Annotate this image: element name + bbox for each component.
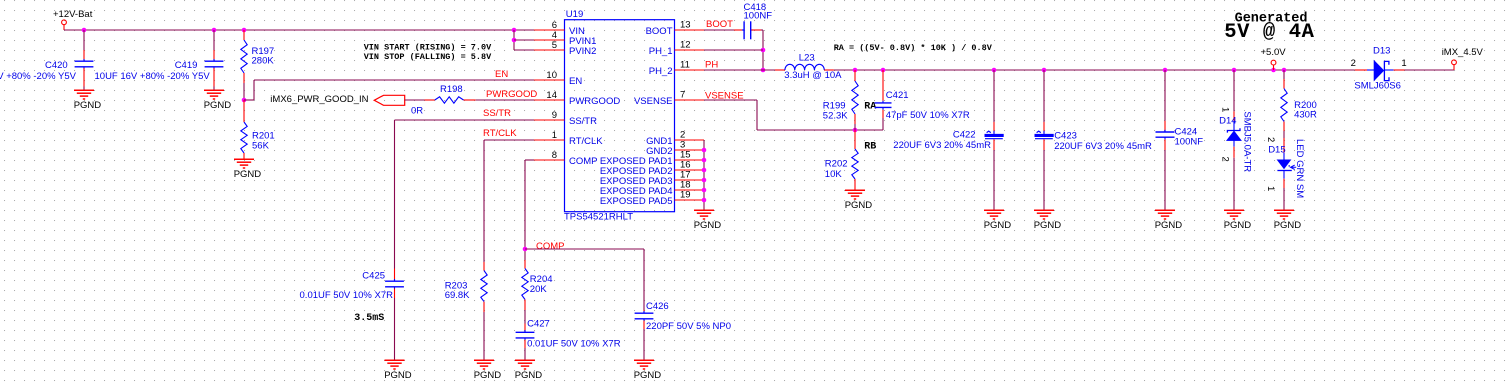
svg-text:PGND: PGND — [694, 220, 722, 231]
ground PGND D14 — [1224, 209, 1244, 211]
junction C424 — [1163, 68, 1168, 73]
svg-text:1: 1 — [552, 130, 557, 141]
junction D14 — [1232, 68, 1237, 73]
svg-text:PGND: PGND — [515, 370, 543, 381]
svg-text:69.8K: 69.8K — [445, 290, 470, 301]
svg-text:VSENSE: VSENSE — [634, 96, 673, 107]
svg-text:280K: 280K — [252, 56, 275, 67]
inductor L23 — [785, 64, 824, 70]
pin 19 stub — [675, 199, 705, 201]
resistor R199 — [854, 70, 856, 81]
op-amp U1 : IC U19 TPS54521RHLT body — [565, 20, 675, 212]
junction R200 — [1282, 68, 1287, 73]
svg-text:56K: 56K — [252, 141, 270, 152]
svg-text:iMX6_PWR_GOOD_IN: iMX6_PWR_GOOD_IN — [270, 94, 368, 105]
svg-text:RB: RB — [864, 142, 876, 153]
junction C421 — [881, 68, 886, 73]
wire COMP to C426 — [525, 248, 644, 250]
svg-text:10K: 10K — [825, 169, 843, 180]
junction COMP — [523, 247, 528, 252]
svg-text:PGND: PGND — [1155, 220, 1183, 231]
svg-text:9: 9 — [552, 110, 557, 121]
svg-text:C421: C421 — [886, 90, 909, 101]
junction pad bus y=160 — [702, 158, 707, 163]
junction pad bus y=170 — [702, 168, 707, 173]
svg-text:10UF 16V +80% -20% Y5V: 10UF 16V +80% -20% Y5V — [0, 71, 77, 82]
junction C419 tap — [212, 28, 217, 33]
svg-text:PWRGOOD: PWRGOOD — [569, 96, 620, 107]
resistor R203 — [481, 271, 487, 302]
svg-text:TPS54521RHLT: TPS54521RHLT — [564, 212, 633, 223]
wire PH_2 — [704, 69, 775, 71]
svg-text:PH_1: PH_1 — [649, 46, 673, 57]
svg-text:PGND: PGND — [204, 100, 232, 111]
svg-text:SS/TR: SS/TR — [483, 108, 511, 119]
wire to PVIN2 — [514, 49, 534, 51]
pin 4 stub — [534, 39, 565, 41]
svg-text:13: 13 — [680, 20, 691, 31]
svg-text:PH_2: PH_2 — [649, 66, 673, 77]
ground PGND U19 pads — [694, 209, 714, 211]
svg-text:47pF 50V 10% X7R: 47pF 50V 10% X7R — [886, 110, 970, 121]
svg-text:1: 1 — [1401, 58, 1406, 69]
svg-text:C426: C426 — [646, 301, 669, 312]
diode D15 LED symbol — [1283, 153, 1285, 160]
ground PGND C419 — [204, 89, 224, 91]
wire port to R198 — [405, 99, 425, 101]
wire RT/CLK net — [484, 139, 534, 141]
svg-text:11: 11 — [680, 60, 690, 71]
diode D13 — [1355, 69, 1367, 71]
wire BOOT to C418 — [704, 29, 734, 31]
ground PGND C425 — [385, 359, 405, 361]
capacitor C423 (polarized) — [1035, 134, 1054, 137]
capacitor C424 — [1156, 131, 1175, 133]
svg-text:PH: PH — [705, 59, 718, 70]
wire SS/TR net — [395, 119, 535, 121]
svg-text:5: 5 — [552, 40, 557, 51]
junction pad bus y=150 — [702, 148, 707, 153]
svg-text:PGND: PGND — [1274, 220, 1302, 231]
svg-text:R198: R198 — [440, 84, 463, 95]
svg-text:C427: C427 — [527, 319, 550, 330]
pin 15 stub — [675, 159, 705, 161]
svg-text:2: 2 — [1220, 157, 1231, 162]
svg-text:D13: D13 — [1373, 45, 1390, 56]
pin 8 stub — [534, 159, 565, 161]
ground PGND C424 — [1155, 209, 1175, 211]
svg-text:RT/CLK: RT/CLK — [569, 136, 603, 147]
wire R197 to node — [243, 83, 245, 100]
wire to PVIN1 — [514, 39, 534, 41]
svg-text:100NF: 100NF — [744, 11, 773, 22]
svg-text:PGND: PGND — [984, 220, 1012, 231]
svg-text:RT/CLK: RT/CLK — [483, 128, 517, 139]
ground PGND C426 — [634, 359, 654, 361]
resistor R197 — [243, 30, 245, 40]
junction RA/RB — [853, 128, 858, 133]
svg-text:RA = ((5V- 0.8V) * 10K ) / 0.: RA = ((5V- 0.8V) * 10K ) / 0.8V — [834, 43, 993, 53]
svg-text:SS/TR: SS/TR — [569, 116, 597, 127]
svg-text:10: 10 — [546, 70, 557, 81]
pin 14 stub — [534, 99, 565, 101]
capacitor C420 — [75, 60, 94, 62]
svg-text:COMP: COMP — [569, 156, 598, 167]
pin 10 stub — [534, 79, 565, 81]
junction C423 — [1042, 68, 1047, 73]
svg-text:EXPOSED PAD5: EXPOSED PAD5 — [600, 196, 673, 207]
svg-text:C425: C425 — [362, 270, 385, 281]
svg-text:3.3uH @ 10A: 3.3uH @ 10A — [784, 70, 842, 81]
wire VIN fork vertical — [513, 30, 515, 50]
svg-text:PGND: PGND — [474, 370, 502, 381]
junction R197 tap — [242, 28, 247, 33]
svg-text:12: 12 — [680, 40, 691, 51]
pin 16 stub — [675, 169, 705, 171]
wire EN net — [244, 99, 254, 101]
wire C423 branch — [1043, 70, 1045, 122]
svg-text:EN: EN — [495, 69, 508, 80]
junction PH_1 — [761, 48, 766, 53]
svg-text:2: 2 — [1351, 58, 1356, 69]
capacitor C421 — [882, 70, 884, 101]
svg-text:EN: EN — [569, 76, 582, 87]
svg-text:+5.0V: +5.0V — [1261, 47, 1287, 58]
svg-text:BOOT: BOOT — [706, 19, 733, 30]
svg-text:L23: L23 — [799, 52, 815, 63]
wire D14 branch — [1233, 70, 1235, 111]
junction pad bus y=190 — [702, 188, 707, 193]
svg-text:PVIN2: PVIN2 — [569, 46, 596, 57]
capacitor C418 (horizontal) — [743, 21, 745, 39]
pin 2 stub — [675, 139, 705, 141]
junction VIN fork — [512, 28, 517, 33]
svg-text:BOOT: BOOT — [646, 26, 673, 37]
svg-text:20K: 20K — [530, 284, 548, 295]
svg-text:PWRGOOD: PWRGOOD — [486, 89, 537, 100]
svg-text:PGND: PGND — [384, 370, 412, 381]
svg-text:1: 1 — [1220, 107, 1231, 112]
svg-text:SMLJ60S6: SMLJ60S6 — [1354, 81, 1400, 92]
pin 5 stub — [534, 49, 565, 51]
svg-text:PGND: PGND — [1034, 220, 1062, 231]
wire VSENSE net — [704, 99, 757, 101]
ground PGND R203 — [474, 359, 494, 361]
resistor R202 — [854, 130, 856, 149]
junction R199 — [853, 68, 858, 73]
wire R198 to PWRGOOD — [476, 99, 534, 101]
ground PGND C427 — [515, 359, 535, 361]
svg-text:C423: C423 — [1054, 130, 1077, 141]
wire to iMX_4.5V — [1405, 69, 1455, 71]
pin 7 stub — [675, 99, 705, 101]
svg-text:VIN START (RISING) = 7.0V: VIN START (RISING) = 7.0V — [364, 42, 492, 52]
ground PGND R202 — [845, 189, 865, 191]
svg-text:C419: C419 — [175, 60, 198, 71]
svg-text:1: 1 — [1265, 186, 1276, 191]
svg-text:U19: U19 — [566, 9, 583, 20]
svg-text:COMP: COMP — [536, 241, 565, 252]
svg-text:220UF 6V3 20% 45mR: 220UF 6V3 20% 45mR — [1054, 141, 1152, 152]
junction C420 tap — [82, 28, 87, 33]
svg-text:220PF 50V 5% NP0: 220PF 50V 5% NP0 — [646, 321, 731, 332]
wire output rail — [834, 69, 1355, 71]
capacitor C422 (polarized) — [985, 134, 1004, 137]
diode D14 zener symbol — [1233, 121, 1235, 131]
svg-text:SMBJ5.0A-TR: SMBJ5.0A-TR — [1242, 111, 1253, 172]
svg-text:2: 2 — [1265, 137, 1276, 142]
pin 6 stub — [534, 29, 565, 31]
pin 1 stub — [534, 139, 565, 141]
svg-text:14: 14 — [546, 90, 557, 101]
svg-text:D15: D15 — [1268, 145, 1285, 156]
svg-text:3.5mS: 3.5mS — [354, 313, 384, 324]
junction +5.0V — [1271, 68, 1276, 73]
junction C422 — [992, 68, 997, 73]
resistor R198 — [435, 97, 464, 103]
svg-text:LED GRN SM: LED GRN SM — [1294, 139, 1305, 198]
pin 9 stub — [534, 119, 565, 121]
svg-text:19: 19 — [680, 190, 691, 201]
svg-text:PGND: PGND — [1224, 220, 1252, 231]
ground PGND C423 — [1034, 209, 1054, 211]
svg-text:PGND: PGND — [74, 100, 102, 111]
svg-text:220UF 6V3 20% 45mR: 220UF 6V3 20% 45mR — [893, 140, 991, 151]
pin 18 stub — [675, 189, 705, 191]
svg-text:PGND: PGND — [234, 169, 262, 180]
pin 17 stub — [675, 179, 705, 181]
svg-text:C420: C420 — [45, 60, 68, 71]
svg-text:PGND: PGND — [845, 200, 873, 211]
svg-text:100NF: 100NF — [1175, 136, 1204, 147]
svg-text:+12V-Bat: +12V-Bat — [53, 9, 93, 20]
wire C419 branch — [213, 30, 215, 50]
wire R204 to C427 — [524, 310, 526, 324]
wire PH_1 — [704, 49, 763, 51]
capacitor C426 — [635, 312, 654, 314]
resistor R200 — [1283, 70, 1285, 79]
svg-text:VIN STOP (FALLING) = 5.8V: VIN STOP (FALLING) = 5.8V — [364, 52, 492, 62]
junction pad bus y=200 — [702, 198, 707, 203]
wire COMP net — [525, 159, 534, 161]
svg-text:52.3K: 52.3K — [823, 111, 848, 122]
wire GND pads bus — [703, 140, 705, 210]
ground PGND C422 — [984, 209, 1004, 211]
svg-text:5V @ 4A: 5V @ 4A — [1224, 21, 1314, 44]
power symbol iMX_4.5V — [1452, 60, 1457, 65]
capacitor C427 — [516, 331, 535, 333]
svg-text:10UF 16V +80% -20% Y5V: 10UF 16V +80% -20% Y5V — [95, 71, 211, 82]
junction PVIN1 fork — [512, 38, 517, 43]
svg-text:0.01UF 50V 10% X7R: 0.01UF 50V 10% X7R — [300, 290, 394, 301]
pin 11 stub — [675, 69, 705, 71]
pin 13 stub — [675, 29, 705, 31]
pin 3 stub — [675, 149, 705, 151]
wire C418 to PH node — [761, 29, 763, 31]
ground PGND C420 — [74, 89, 94, 91]
svg-text:8: 8 — [552, 150, 557, 161]
svg-text:0.01UF 50V 10% X7R: 0.01UF 50V 10% X7R — [527, 338, 621, 349]
junction pad bus y=180 — [702, 178, 707, 183]
svg-text:7: 7 — [680, 90, 685, 101]
wire +12V main rail — [64, 29, 534, 31]
svg-text:PGND: PGND — [634, 370, 662, 381]
capacitor C419 — [205, 60, 224, 62]
resistor R204 — [522, 269, 528, 300]
svg-text:iMX_4.5V: iMX_4.5V — [1442, 47, 1484, 58]
pin 12 stub — [675, 49, 705, 51]
junction PH_2 — [761, 68, 766, 73]
svg-text:430R: 430R — [1294, 110, 1317, 121]
resistor R201 — [243, 100, 245, 122]
capacitor C425 — [385, 280, 404, 282]
wire C420 branch — [83, 30, 85, 50]
ground PGND D15 — [1274, 209, 1294, 211]
ground PGND R201 — [234, 158, 254, 160]
junction EN divider — [242, 98, 247, 103]
wire C424 branch — [1164, 70, 1166, 121]
svg-text:C422: C422 — [953, 129, 976, 140]
wire C422 branch — [993, 70, 995, 122]
svg-text:0R: 0R — [411, 106, 423, 117]
